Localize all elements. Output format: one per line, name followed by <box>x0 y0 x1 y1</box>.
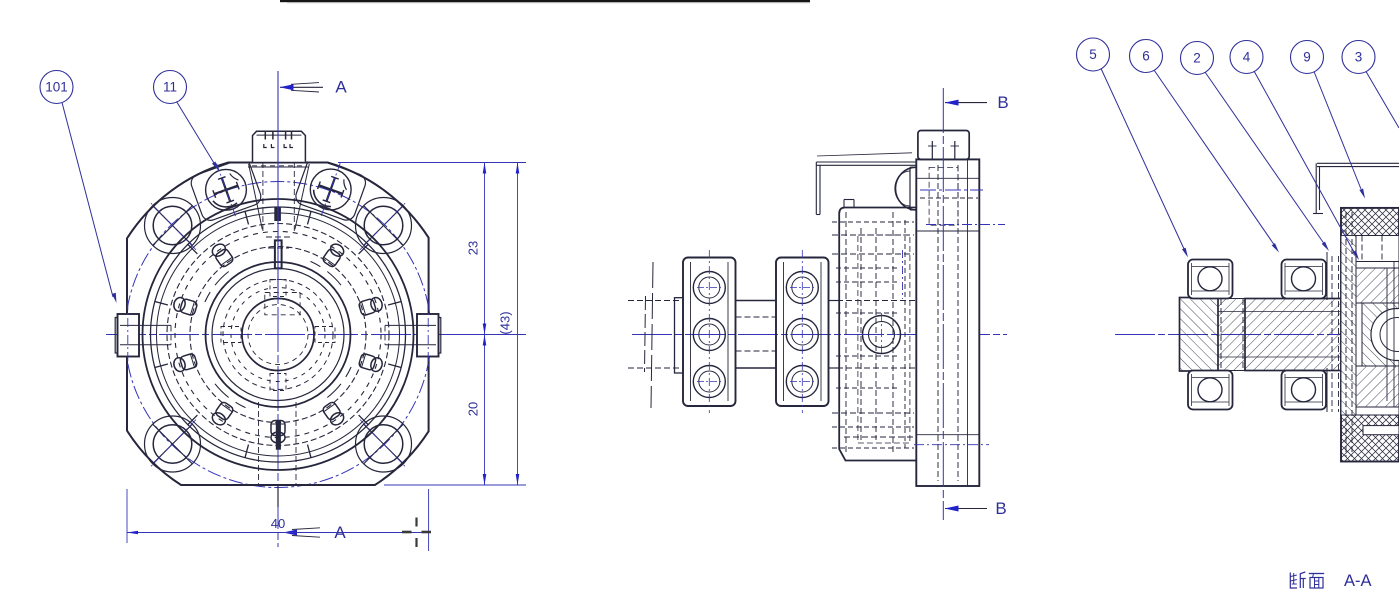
svg-text:A-A: A-A <box>1344 572 1372 590</box>
svg-text:A: A <box>335 78 347 97</box>
section plate top counterbore <box>1356 236 1399 262</box>
svg-text:2: 2 <box>1193 51 1201 66</box>
label B bottom <box>995 499 1006 518</box>
section plate body (cross-hatched) <box>1341 208 1399 462</box>
side view shaft between blocks <box>736 301 777 369</box>
outer ring circles <box>143 199 414 470</box>
svg-text:20: 20 <box>466 402 481 416</box>
dimension extension lines right <box>338 163 526 486</box>
phillips screw right <box>310 163 351 216</box>
svg-text:40: 40 <box>271 516 285 531</box>
svg-text:6: 6 <box>1142 49 1150 64</box>
section arrow B bottom <box>945 506 988 512</box>
side view center screw <box>860 313 903 356</box>
dim text 20 <box>466 402 481 416</box>
front view top slot filled bar <box>274 207 281 221</box>
screw pocket right <box>293 156 368 222</box>
front view vertical centerline (section A-A cut line) <box>277 71 279 547</box>
leader 5 <box>1101 69 1188 258</box>
section shaft under left bearing <box>1218 299 1245 371</box>
svg-text:9: 9 <box>1303 50 1311 65</box>
front view upper slot outline <box>275 240 282 268</box>
dim text (43) <box>498 311 513 334</box>
section title 断面 <box>1290 572 1324 588</box>
corner bolt hole bottom-right <box>356 416 412 472</box>
leader 11 <box>177 102 220 172</box>
section bearing right (item 6) <box>1282 260 1327 410</box>
leader 2 <box>1205 72 1329 251</box>
balloon 5 <box>1077 38 1110 71</box>
side view flange plate <box>916 159 979 486</box>
svg-text:(43): (43) <box>498 311 513 334</box>
svg-text:23: 23 <box>466 241 481 255</box>
front view flange outline <box>127 163 429 486</box>
section arrow A top <box>278 71 323 300</box>
section plate left strip <box>1341 236 1356 416</box>
svg-text:B: B <box>997 93 1008 112</box>
svg-text:3: 3 <box>1355 50 1363 65</box>
section plate bottom slot <box>1363 426 1399 435</box>
balloon 6 <box>1130 40 1163 73</box>
radial tick marks <box>154 211 401 458</box>
section bracket <box>1313 163 1399 213</box>
title underline bar <box>280 0 810 3</box>
side view bearing block 2 <box>776 250 829 413</box>
balloon 9 <box>1291 41 1324 74</box>
svg-text:4: 4 <box>1243 50 1251 65</box>
diagonal dash arcs <box>205 261 351 407</box>
section title A-A <box>1344 572 1372 590</box>
leader 101 <box>62 103 117 304</box>
bottom dimension 40 <box>127 489 429 551</box>
label A bottom <box>334 523 346 542</box>
side view blue centerlines <box>903 190 1006 445</box>
datum target symbol <box>402 518 431 548</box>
side view top tab <box>918 131 969 160</box>
axis hole marks <box>221 280 335 391</box>
section arrow B top <box>945 100 988 106</box>
shaft break lines <box>628 262 683 408</box>
front view bolt circle (dash-dot) <box>125 182 431 488</box>
left side tab <box>115 301 171 369</box>
section collar (hatched) <box>1180 298 1219 372</box>
section shaft spacer (hatched) <box>1218 299 1359 371</box>
label A top <box>335 78 347 97</box>
section plate hidden bolt lines <box>1327 252 1339 412</box>
corner bolt hole top-right <box>356 198 412 254</box>
leader 6 <box>1154 70 1279 253</box>
balloon 3 <box>1342 41 1375 74</box>
corner bolt hole top-left <box>145 198 201 254</box>
side view body outline <box>829 200 917 461</box>
svg-text:101: 101 <box>45 80 68 95</box>
screw pocket left (item 11) <box>189 157 264 223</box>
section arrow A bottom <box>283 528 326 537</box>
section view centerline <box>1115 334 1399 336</box>
leader 4 <box>1254 71 1359 260</box>
balloon 4 <box>1230 41 1263 74</box>
dashed rings <box>167 224 389 446</box>
dim text 23 <box>466 241 481 255</box>
dimension line (43) <box>516 163 520 486</box>
side view body hidden lines <box>828 212 916 455</box>
section plate cavity <box>1346 212 1399 457</box>
radial set screws (8x + bottom) <box>172 242 384 443</box>
phillips screw left <box>206 164 247 217</box>
balloon 11 <box>154 71 187 104</box>
label B top <box>997 93 1008 112</box>
corner bolt hole bottom-left <box>145 416 201 472</box>
section bearing left (item 5) <box>1188 260 1233 410</box>
dimension line 23/20 <box>483 163 487 486</box>
side view bearing block 1 <box>683 250 736 413</box>
section line B-B <box>942 88 944 520</box>
front view top tab <box>253 131 306 232</box>
leader 9 <box>1314 72 1365 199</box>
svg-text:5: 5 <box>1089 47 1097 62</box>
side view bracket <box>816 153 916 215</box>
inner solid rings <box>206 262 351 407</box>
svg-text:B: B <box>995 499 1006 518</box>
svg-text:11: 11 <box>163 80 177 95</box>
balloon 101 <box>40 71 73 104</box>
shaft end collar <box>675 298 684 373</box>
right side tab <box>385 301 441 369</box>
balloon 2 <box>1181 42 1214 75</box>
front view horizontal centerline <box>106 334 452 336</box>
front view funnel slot lines <box>248 164 309 248</box>
leader 3 <box>1366 72 1399 129</box>
bottom slot <box>259 402 297 507</box>
side view horizontal centerline <box>632 334 1007 336</box>
side view screw dome <box>895 167 916 210</box>
